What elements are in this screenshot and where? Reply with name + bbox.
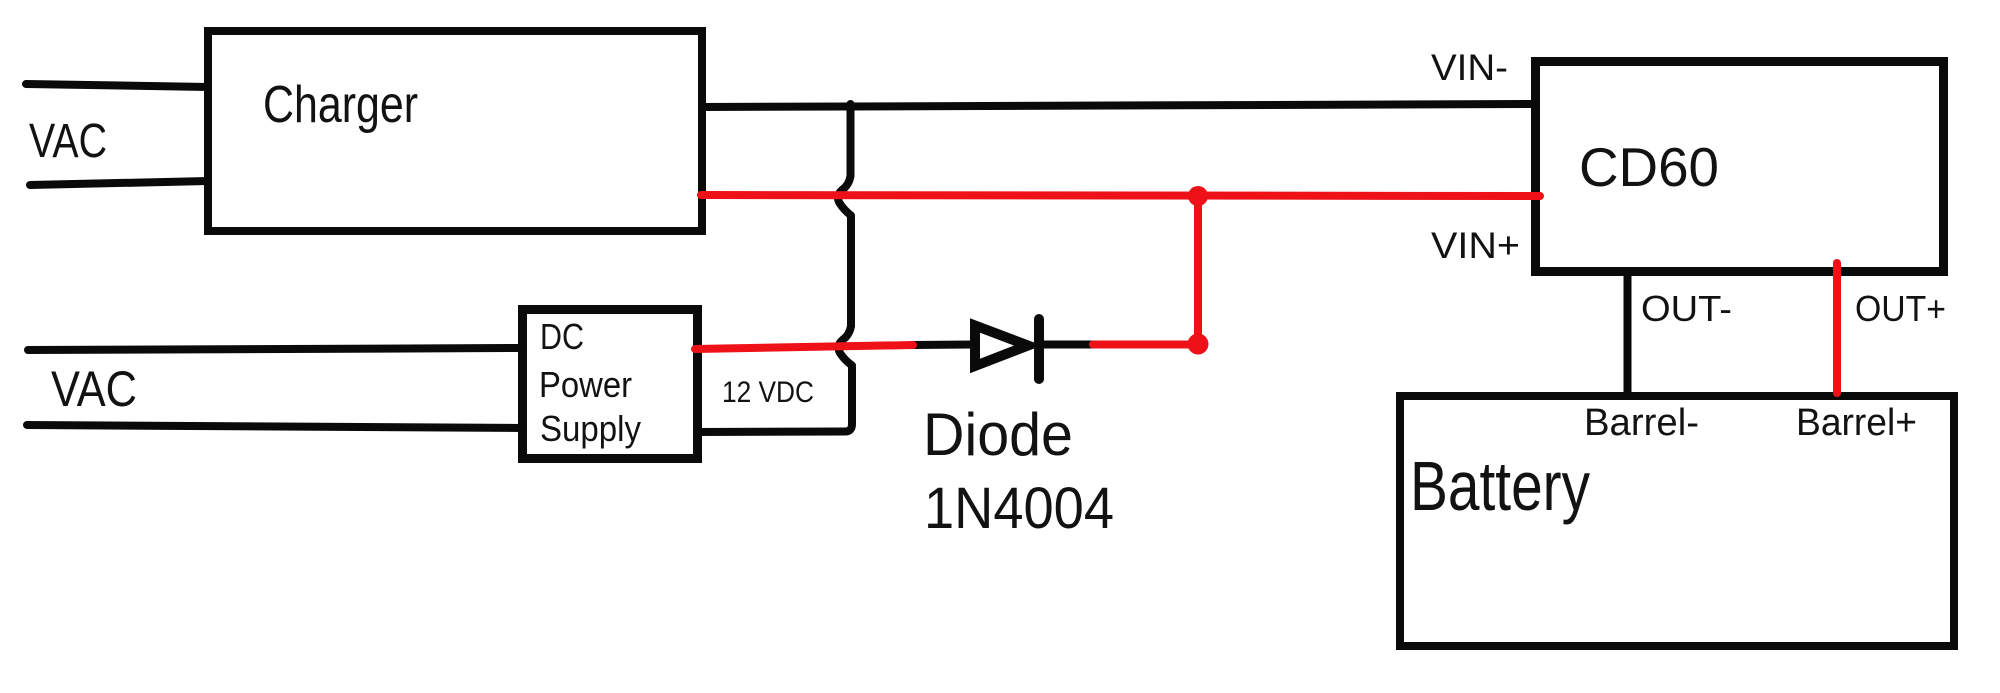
svg-text:VAC: VAC [29, 115, 107, 168]
svg-text:Supply: Supply [540, 408, 641, 449]
svg-text:VAC: VAC [51, 361, 137, 417]
svg-text:Barrel-: Barrel- [1584, 402, 1699, 444]
svg-text:OUT+: OUT+ [1855, 288, 1946, 329]
svg-text:12 VDC: 12 VDC [722, 376, 814, 409]
svg-text:1N4004: 1N4004 [924, 476, 1114, 541]
svg-text:VIN+: VIN+ [1431, 225, 1520, 266]
svg-text:Power: Power [539, 364, 632, 405]
svg-text:Battery: Battery [1410, 447, 1590, 525]
svg-text:Barrel+: Barrel+ [1796, 402, 1917, 444]
svg-text:OUT-: OUT- [1641, 288, 1732, 329]
svg-text:Diode: Diode [923, 401, 1073, 468]
svg-text:VIN-: VIN- [1431, 47, 1508, 88]
svg-text:DC: DC [540, 316, 584, 357]
svg-text:Charger: Charger [263, 76, 418, 134]
svg-text:CD60: CD60 [1579, 136, 1719, 198]
